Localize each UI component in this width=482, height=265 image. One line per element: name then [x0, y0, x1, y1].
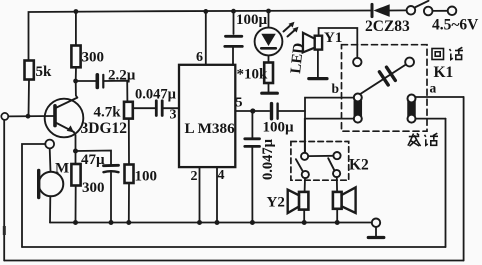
wire top supply rail [29, 11, 373, 61]
svg-text:K1: K1 [434, 64, 454, 81]
node base junction dot [26, 114, 31, 119]
wire a-top contact to right [416, 96, 464, 98]
wire outer bottom rail [4, 260, 463, 262]
svg-text:5k: 5k [36, 64, 53, 80]
svg-text:5: 5 [236, 96, 243, 111]
wire 47u to bus [110, 173, 112, 223]
wire 300 bottom to bus [75, 186, 77, 223]
resistor R 5k [25, 61, 34, 80]
node pin5 junction dot [250, 108, 255, 113]
wire K2 to Y2 left [304, 178, 306, 192]
node bus dot pin2 [197, 220, 202, 225]
relay K1 armature [360, 65, 406, 95]
node top rail dot 100u [231, 9, 236, 14]
capacitor C 100u output [270, 104, 273, 119]
wire inner right vertical [445, 119, 447, 247]
capacitor C 47u [104, 164, 119, 167]
svg-text:300: 300 [82, 180, 105, 196]
transistor Q 3DG12 [45, 99, 84, 138]
node top rail dot LED [266, 9, 271, 14]
svg-text:LED: LED [288, 42, 307, 75]
node top rail dot at 300 [74, 9, 79, 14]
node bus dot 47u [109, 220, 114, 225]
svg-text:100µ: 100µ [236, 12, 268, 28]
microphone diaphragm bar [37, 171, 40, 198]
wire 100 to bus [128, 183, 130, 223]
label fahua (Chinese: talk) [408, 133, 438, 146]
wire collector [76, 81, 78, 98]
svg-text:2: 2 [191, 169, 198, 184]
battery terminal circle [448, 7, 457, 16]
wire Y2 left to bus [303, 210, 305, 223]
wire 100u to chip top [232, 46, 234, 64]
wire 100u output to K1 feed [279, 110, 305, 112]
svg-text:2.2µ: 2.2µ [108, 68, 136, 84]
svg-text:Y1: Y1 [324, 30, 342, 46]
wire junction to 2.2u [76, 80, 96, 82]
node input terminal circle [1, 113, 8, 120]
wire terminal to microphone [49, 149, 52, 172]
svg-text:47µ: 47µ [81, 152, 105, 168]
wire ground bus [50, 222, 372, 224]
resistor R 300 bottom [71, 164, 80, 186]
node bus dot 100 [126, 220, 131, 225]
microphone M body [39, 172, 64, 197]
wire outer left vertical [3, 120, 5, 261]
wire 5k bottom to base junction [28, 80, 31, 117]
node bus dot 0.047u [250, 220, 255, 225]
wire 300 to collector junction [75, 67, 77, 81]
wire pin2 [199, 167, 201, 222]
relay K1 contact bar b [354, 101, 361, 116]
wire K1 feed vertical [305, 98, 354, 153]
wire 2.2u to 4.7k [105, 81, 128, 102]
wire microphone to ground bus [49, 196, 51, 222]
relay K1 dashed box [342, 45, 428, 132]
svg-text:0.047µ: 0.047µ [260, 138, 276, 180]
wire pin5 output [235, 110, 269, 112]
wire K2 to Y2 right [336, 177, 338, 192]
resistor R 300 top [71, 46, 80, 68]
wire 4.7k to input cap [133, 107, 155, 109]
svg-text:0.047µ: 0.047µ [135, 87, 177, 103]
scan mark left edge [3, 226, 6, 235]
capacitor C 0.047u output [251, 111, 253, 138]
wire Y1 bottom to chassis [317, 50, 319, 78]
svg-text:b: b [332, 81, 340, 96]
capacitor C 2.2u [96, 75, 100, 88]
wire pin4 [216, 167, 218, 222]
svg-text:3DG12: 3DG12 [81, 120, 128, 137]
svg-text:K2: K2 [349, 157, 369, 174]
wire base input [8, 115, 54, 117]
speaker Y1 [315, 36, 322, 50]
node emitter junction dot [73, 149, 78, 154]
LED light arrows [284, 24, 293, 32]
node top rail dot pin6 [203, 9, 208, 14]
switch S1 [407, 6, 416, 15]
wire outer right vertical [463, 97, 465, 261]
svg-text:Y2: Y2 [267, 195, 285, 211]
wire Y2 right to bus [336, 209, 338, 223]
wire emitter junction to R300 bottom [75, 151, 77, 164]
diode D 2CZ83 [371, 4, 374, 16]
node bus dot pin4 [215, 220, 220, 225]
wire emitter junction to 47u [76, 151, 112, 165]
node K1 rest contact circle [353, 58, 361, 66]
ground bar below Y1 [309, 77, 327, 80]
wire a-bottom contact to right [416, 118, 446, 120]
op-amp U LM386 box [179, 65, 235, 167]
node K2 contact circles [301, 153, 308, 160]
svg-text:M: M [55, 161, 69, 177]
switch K2 levers [296, 159, 303, 172]
svg-text:6: 6 [196, 50, 203, 65]
node collector junction dot [73, 79, 78, 84]
svg-text:100µ: 100µ [263, 120, 295, 136]
node bus dot Y2 right [335, 220, 340, 225]
wire Y1 top to K1 contact [319, 28, 358, 58]
wire emitter down [74, 132, 76, 151]
wire M terminal to inner rail [22, 144, 45, 247]
svg-text:100: 100 [135, 169, 158, 185]
wire 10k to ground bar [268, 83, 270, 92]
wire K2 top link [308, 155, 333, 157]
speaker Y2 right [333, 192, 342, 209]
speaker Y2 left [299, 192, 308, 210]
wire LED to 10k [268, 55, 270, 62]
relay K1 contact bar a [408, 102, 415, 116]
capacitor C 100u top [226, 35, 242, 38]
ground terminal [372, 219, 380, 227]
svg-text:4.7k: 4.7k [94, 105, 122, 121]
relay K2 dashed box [291, 142, 349, 181]
resistor R 10k [264, 63, 273, 84]
wire inner bottom rail [22, 246, 446, 248]
wire 0.047u to bus [251, 146, 253, 222]
label huihua (Chinese: reply) [432, 47, 463, 59]
svg-text:L M386: L M386 [185, 120, 236, 137]
node bus dot Y2 left [302, 220, 307, 225]
svg-text:2CZ83: 2CZ83 [365, 18, 410, 35]
wire top rail to LED [268, 12, 270, 28]
svg-text:4: 4 [218, 168, 225, 183]
wire top rail to 100u decoupling [233, 12, 235, 35]
svg-text:300: 300 [82, 50, 105, 66]
node bus dot 300 [73, 220, 78, 225]
wire 4.7k bottom to 100 [128, 119, 130, 165]
svg-text:4.5~6V: 4.5~6V [432, 17, 479, 34]
svg-text:a: a [430, 81, 437, 96]
resistor R 100 [125, 165, 134, 184]
resistor R 4.7k [124, 102, 133, 119]
wire K1 feed down to K2 [304, 119, 306, 153]
wire feed to b-bottom [305, 118, 354, 120]
ground bar below 10k [262, 92, 278, 95]
node mic terminal circle [45, 140, 54, 149]
LED D1 [255, 28, 283, 56]
wire input cap to pin3 [164, 107, 180, 109]
wire pin6 [205, 12, 207, 65]
svg-text:3: 3 [170, 108, 177, 123]
capacitor C 0.047u input [155, 101, 158, 116]
svg-text:*10k: *10k [237, 67, 269, 83]
wire top rail to R300 [75, 12, 77, 46]
